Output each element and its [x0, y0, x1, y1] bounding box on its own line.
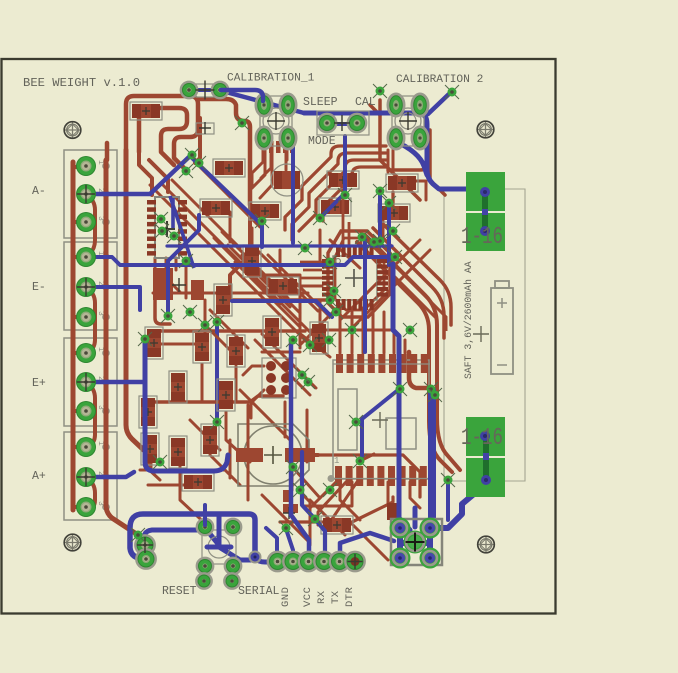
solid red rectangle component 2	[191, 280, 204, 300]
polarized capacitor with round outline	[271, 164, 303, 196]
wire horizontal	[232, 298, 330, 302]
wire	[295, 470, 320, 498]
terminal E+ pad 2	[76, 372, 96, 392]
power jumper link top	[482, 209, 488, 215]
wire top right links	[388, 150, 426, 200]
via	[155, 224, 169, 238]
reset header pad 2	[137, 550, 156, 569]
battery holder outline	[444, 189, 525, 481]
wire	[149, 160, 168, 192]
wire	[352, 497, 393, 522]
IC U2 top pads	[336, 246, 340, 257]
jumper cross	[334, 115, 350, 131]
svg-text:1-16: 1-16	[461, 425, 503, 452]
terminal E- hole 3	[103, 314, 109, 320]
via	[373, 184, 387, 198]
IC U4 pad rails	[331, 364, 434, 479]
capacitor	[201, 424, 219, 456]
wire blue wide vertical	[428, 390, 436, 518]
wire	[299, 318, 302, 348]
wire via stub	[360, 454, 374, 461]
terminal block E- outline	[64, 242, 117, 330]
via	[131, 528, 145, 542]
U1 pin pair 7	[147, 244, 156, 249]
wire	[351, 308, 354, 353]
wire diagonal	[262, 495, 310, 543]
piezo pad right	[285, 448, 315, 462]
power via	[480, 187, 490, 197]
mounting hole	[64, 122, 81, 139]
IC U2 left pads	[322, 259, 333, 263]
resistor	[182, 473, 214, 491]
wire stub	[410, 482, 420, 508]
wire	[205, 325, 240, 360]
mounting hole	[477, 121, 494, 138]
via	[349, 415, 363, 429]
trimmer pad	[256, 94, 272, 116]
wire	[262, 351, 300, 354]
wire diagonal	[352, 524, 388, 560]
terminal block E+ outline	[64, 338, 117, 426]
jumper pad SLEEP	[318, 114, 336, 132]
terminal A- pad 2	[76, 184, 96, 204]
power via	[481, 475, 491, 485]
resistor network pads	[262, 141, 267, 153]
wire	[310, 329, 390, 332]
wire	[310, 300, 320, 335]
reset extra pad 2	[225, 574, 240, 589]
jumper SLEEP silkscreen	[317, 111, 369, 135]
IC U2 ring trace inner	[335, 238, 384, 310]
serial pad cross	[348, 554, 363, 569]
piezo pad left	[236, 448, 263, 462]
via	[161, 309, 175, 323]
svg-text:CALIBRATION 2: CALIBRATION 2	[396, 74, 483, 86]
IC U2 ring trace outer	[328, 231, 390, 317]
terminal A+ pad 1	[76, 437, 96, 457]
via	[355, 230, 369, 244]
terminal block A- outline	[64, 150, 117, 238]
wire blue to pad1	[255, 558, 277, 562]
svg-text:CAL: CAL	[355, 96, 376, 109]
wire	[310, 482, 336, 508]
trimmer CALIBRATION 2 cross	[399, 112, 417, 130]
wire blue pad4 feed	[315, 519, 325, 561]
wire diagonal	[150, 185, 310, 345]
terminal E- pad 3	[76, 307, 96, 327]
capacitor	[310, 322, 328, 354]
svg-text:RX: RX	[316, 590, 328, 604]
wire	[240, 390, 290, 440]
wire jumper silkscreen	[196, 84, 216, 97]
serial pad 4	[315, 552, 334, 571]
red stub block	[283, 504, 298, 513]
wire	[285, 153, 288, 170]
wire blue	[320, 136, 345, 218]
wire diagonal	[222, 232, 288, 298]
wire pad link	[86, 194, 95, 255]
resistor	[130, 102, 162, 120]
wire diagonal	[199, 166, 260, 227]
wire	[330, 482, 357, 522]
IC U4 body outline	[333, 360, 429, 479]
wire	[190, 420, 220, 450]
via	[388, 250, 402, 264]
capacitor	[139, 396, 157, 428]
capacitor	[145, 327, 163, 359]
U1 pin pair 3	[147, 215, 156, 220]
wire blue top route	[304, 113, 484, 189]
trimmer pad	[388, 94, 404, 116]
wire blue long diagonal	[222, 91, 304, 113]
wire to E- 1	[73, 255, 86, 259]
wire right arc 3	[373, 228, 444, 338]
power via	[480, 431, 490, 441]
power jumper link bottom	[483, 453, 489, 460]
svg-text:DTR: DTR	[344, 586, 356, 607]
svg-text:CALIBRATION_1: CALIBRATION_1	[227, 73, 315, 85]
wire	[185, 258, 188, 298]
wire	[370, 105, 380, 115]
wire right arc 4	[380, 221, 451, 325]
wire blue button cross	[207, 514, 231, 547]
wire	[383, 312, 386, 353]
via	[323, 483, 337, 497]
terminal A+ hole 1	[103, 444, 109, 450]
wire blue left vertical and bottom run	[145, 339, 228, 471]
wire hook 3	[299, 160, 386, 231]
reset button pad	[225, 558, 241, 574]
IC U2 bottom pads	[336, 299, 340, 310]
reset button pad	[197, 558, 213, 574]
via	[210, 315, 224, 329]
wire diagonal	[262, 334, 316, 388]
wire	[340, 240, 420, 320]
wire pad link	[86, 477, 95, 510]
terminal A- hole 2	[103, 191, 109, 197]
wire	[340, 482, 360, 520]
wire	[251, 390, 264, 418]
svg-text:MODE: MODE	[308, 135, 336, 148]
reset button pad	[197, 519, 213, 535]
via	[327, 284, 341, 298]
terminal A- hole 1	[103, 163, 109, 169]
wire	[382, 218, 385, 240]
terminal A+ pad 3	[76, 497, 96, 517]
wire blue E+ net	[90, 380, 143, 385]
wire	[319, 230, 322, 260]
wire	[229, 212, 232, 242]
wire	[230, 205, 250, 300]
piezo speaker outline	[238, 424, 309, 486]
power switch blue links	[400, 528, 430, 558]
wire	[330, 240, 360, 268]
wire	[252, 153, 265, 188]
U1 cross	[159, 221, 175, 237]
wire hook 4	[323, 167, 386, 221]
svg-text:SERIAL: SERIAL	[238, 585, 280, 598]
wire	[298, 285, 322, 288]
trimmer pad	[280, 127, 296, 149]
trimmer CALIBRATION_1 silkscreen	[260, 96, 292, 146]
via	[293, 483, 307, 497]
board outline	[2, 59, 556, 614]
wire	[247, 405, 250, 500]
via	[322, 333, 336, 347]
via	[179, 164, 193, 178]
wire blue diag	[316, 301, 332, 317]
silkscreen box small	[196, 123, 214, 134]
wire to E- 3	[73, 315, 86, 319]
wire blue to power pad	[434, 483, 487, 528]
wire	[210, 455, 240, 485]
terminal A- hole 3	[103, 219, 109, 225]
wire pad link	[86, 382, 95, 447]
U1 pin pair 6	[147, 237, 156, 242]
wire	[362, 308, 365, 353]
wire pot fan	[261, 146, 271, 178]
wire pot fan	[286, 146, 289, 160]
IC U2 feed wires	[300, 189, 361, 278]
wire	[160, 343, 195, 346]
wire blue A- net	[90, 156, 190, 194]
svg-text:E-: E-	[32, 281, 46, 294]
via	[403, 323, 417, 337]
terminal E+ hole 1	[103, 350, 109, 356]
via	[424, 382, 438, 396]
wire blue x217	[215, 322, 219, 420]
wire blue pot1 down	[291, 145, 295, 243]
svg-text:VCC: VCC	[302, 587, 314, 607]
reset header cross	[137, 537, 153, 553]
wire	[251, 228, 254, 252]
terminal E+ hole 2	[103, 379, 109, 385]
power pad P2	[466, 213, 505, 251]
capacitor	[243, 245, 261, 277]
svg-text:1-16: 1-16	[461, 224, 503, 251]
wire diagonal	[172, 180, 240, 248]
mounting hole	[478, 536, 495, 553]
wire right arc 1	[365, 235, 460, 470]
wire pot fan	[252, 146, 263, 188]
jumper cross	[196, 81, 215, 100]
wire	[303, 505, 352, 508]
via	[295, 368, 309, 382]
via	[323, 255, 337, 269]
jumper pad	[181, 82, 197, 98]
wire stub	[387, 482, 390, 505]
via	[198, 318, 212, 332]
wire diagonal	[210, 310, 248, 348]
terminal E- drill cross	[77, 278, 95, 296]
via	[323, 293, 337, 307]
wire long 455	[311, 455, 420, 497]
capacitor	[217, 379, 235, 411]
wire	[145, 466, 160, 480]
via	[153, 455, 167, 469]
terminal block A+ outline	[64, 432, 117, 520]
terminal A- pad 3	[76, 212, 96, 232]
battery cell symbol	[491, 288, 513, 374]
resistor	[267, 277, 299, 295]
via	[255, 214, 269, 228]
wire blue reset route inner	[144, 530, 204, 545]
svg-text:1: 1	[334, 456, 339, 466]
wire	[350, 250, 430, 330]
capacitor	[141, 433, 159, 465]
wire left bus 2	[106, 160, 138, 535]
svg-text:A+: A+	[32, 470, 46, 483]
via	[279, 521, 293, 535]
wire	[306, 410, 309, 462]
U4 origin cross	[372, 412, 388, 428]
wire	[339, 308, 342, 353]
serial pad 2	[284, 552, 303, 571]
via	[393, 382, 407, 396]
wire	[155, 299, 170, 324]
via	[179, 254, 193, 268]
wire left entry	[105, 143, 110, 160]
mounting hole	[64, 534, 81, 551]
svg-text:RESET: RESET	[162, 585, 197, 598]
via	[138, 332, 152, 346]
trimmer pad	[412, 94, 428, 116]
wire blue rx	[302, 452, 315, 519]
capacitor	[227, 335, 245, 367]
wire blue gnd stub	[266, 528, 277, 559]
via CAL	[373, 84, 387, 98]
wire diagonal	[228, 245, 290, 307]
trimmer pad	[412, 127, 428, 149]
reset route end via	[249, 551, 262, 564]
via	[303, 338, 317, 352]
U1 pin pair 5	[147, 229, 156, 234]
wire	[235, 366, 238, 400]
terminal A+ hole 2	[103, 474, 109, 480]
wire blue down left	[168, 215, 199, 316]
wire diagonal	[255, 340, 310, 395]
terminal E- hole 1	[103, 254, 109, 260]
wire blue	[446, 482, 450, 520]
wire diagonal	[214, 238, 280, 304]
via	[353, 454, 367, 468]
wire	[226, 412, 250, 462]
via	[308, 512, 322, 526]
via	[183, 305, 197, 319]
via	[367, 235, 381, 249]
wire diagonal	[255, 248, 318, 311]
jumper pad	[212, 82, 228, 98]
wire	[229, 440, 232, 478]
U1 pin pair 8	[147, 251, 156, 256]
wire left bus 1	[126, 150, 150, 470]
trimmer CALIBRATION_1 cross	[267, 112, 285, 130]
via	[373, 234, 387, 248]
wire small drop	[195, 118, 200, 163]
wire	[430, 130, 445, 195]
wire to x250 vertical	[198, 99, 250, 205]
stub cross	[283, 507, 295, 519]
trimmer CALIBRATION 2 silkscreen	[392, 96, 424, 146]
wire blue diagonal	[192, 158, 262, 247]
via	[338, 188, 352, 202]
reset header pad 1	[136, 536, 155, 555]
wire hook 1	[285, 146, 386, 230]
terminal E- hole 2	[103, 284, 109, 290]
via	[301, 375, 315, 389]
wire blue via down 2	[387, 206, 391, 265]
wire to A- 3	[73, 220, 86, 224]
wire	[280, 520, 322, 523]
wire to A+ 3	[73, 505, 86, 509]
wire hook 2	[292, 153, 386, 240]
via	[329, 305, 343, 319]
wire	[180, 462, 210, 528]
serial pad 1	[268, 552, 287, 571]
wire	[260, 153, 272, 198]
via	[386, 224, 400, 238]
IC U4 inner outline 1	[338, 389, 357, 450]
wire blue button up	[203, 505, 207, 525]
wire blue jumper link	[189, 88, 220, 92]
wire	[310, 500, 345, 535]
via	[235, 116, 249, 130]
terminal A+ drill cross	[77, 468, 95, 486]
wire pad link	[86, 287, 95, 353]
wire blue pad5 to cluster	[340, 533, 394, 561]
wire	[204, 300, 207, 345]
wire diagonal	[242, 255, 300, 313]
wire blue main vertical	[393, 264, 410, 530]
serial pad 6	[346, 552, 365, 571]
trimmer pad	[280, 94, 296, 116]
via	[192, 156, 206, 170]
capacitor	[319, 198, 351, 216]
wire blue horizontal 246	[167, 244, 392, 247]
via	[154, 212, 168, 226]
wire terminal bus	[71, 162, 76, 510]
wire MCU hook	[409, 352, 428, 388]
wire	[394, 312, 405, 353]
reset button silkscreen	[202, 530, 236, 564]
wire blue button link	[219, 547, 255, 560]
wire	[166, 258, 180, 292]
wire	[201, 364, 204, 400]
wire	[175, 258, 178, 270]
power via	[480, 226, 490, 236]
terminal A- pad 1	[76, 156, 96, 176]
wire horizontal	[145, 396, 283, 402]
box cross	[199, 122, 211, 134]
wire blue pot2 drop	[395, 141, 427, 175]
resistor	[213, 159, 245, 177]
resistor	[249, 202, 281, 220]
wire blue reset route outer	[130, 514, 255, 559]
serial pad 3	[299, 552, 318, 571]
via	[382, 196, 396, 210]
connector J5 pads	[262, 358, 296, 398]
jumper pad MODE	[348, 114, 366, 132]
resistor	[321, 516, 353, 534]
wire to A- 1	[73, 165, 86, 169]
via	[428, 388, 442, 402]
wire loop inner	[139, 108, 187, 165]
via	[441, 473, 455, 487]
wire horizontal	[140, 469, 225, 472]
U1 blue diagonal	[170, 196, 194, 268]
terminal E- pad 2	[76, 277, 96, 297]
placement cross	[172, 278, 186, 292]
